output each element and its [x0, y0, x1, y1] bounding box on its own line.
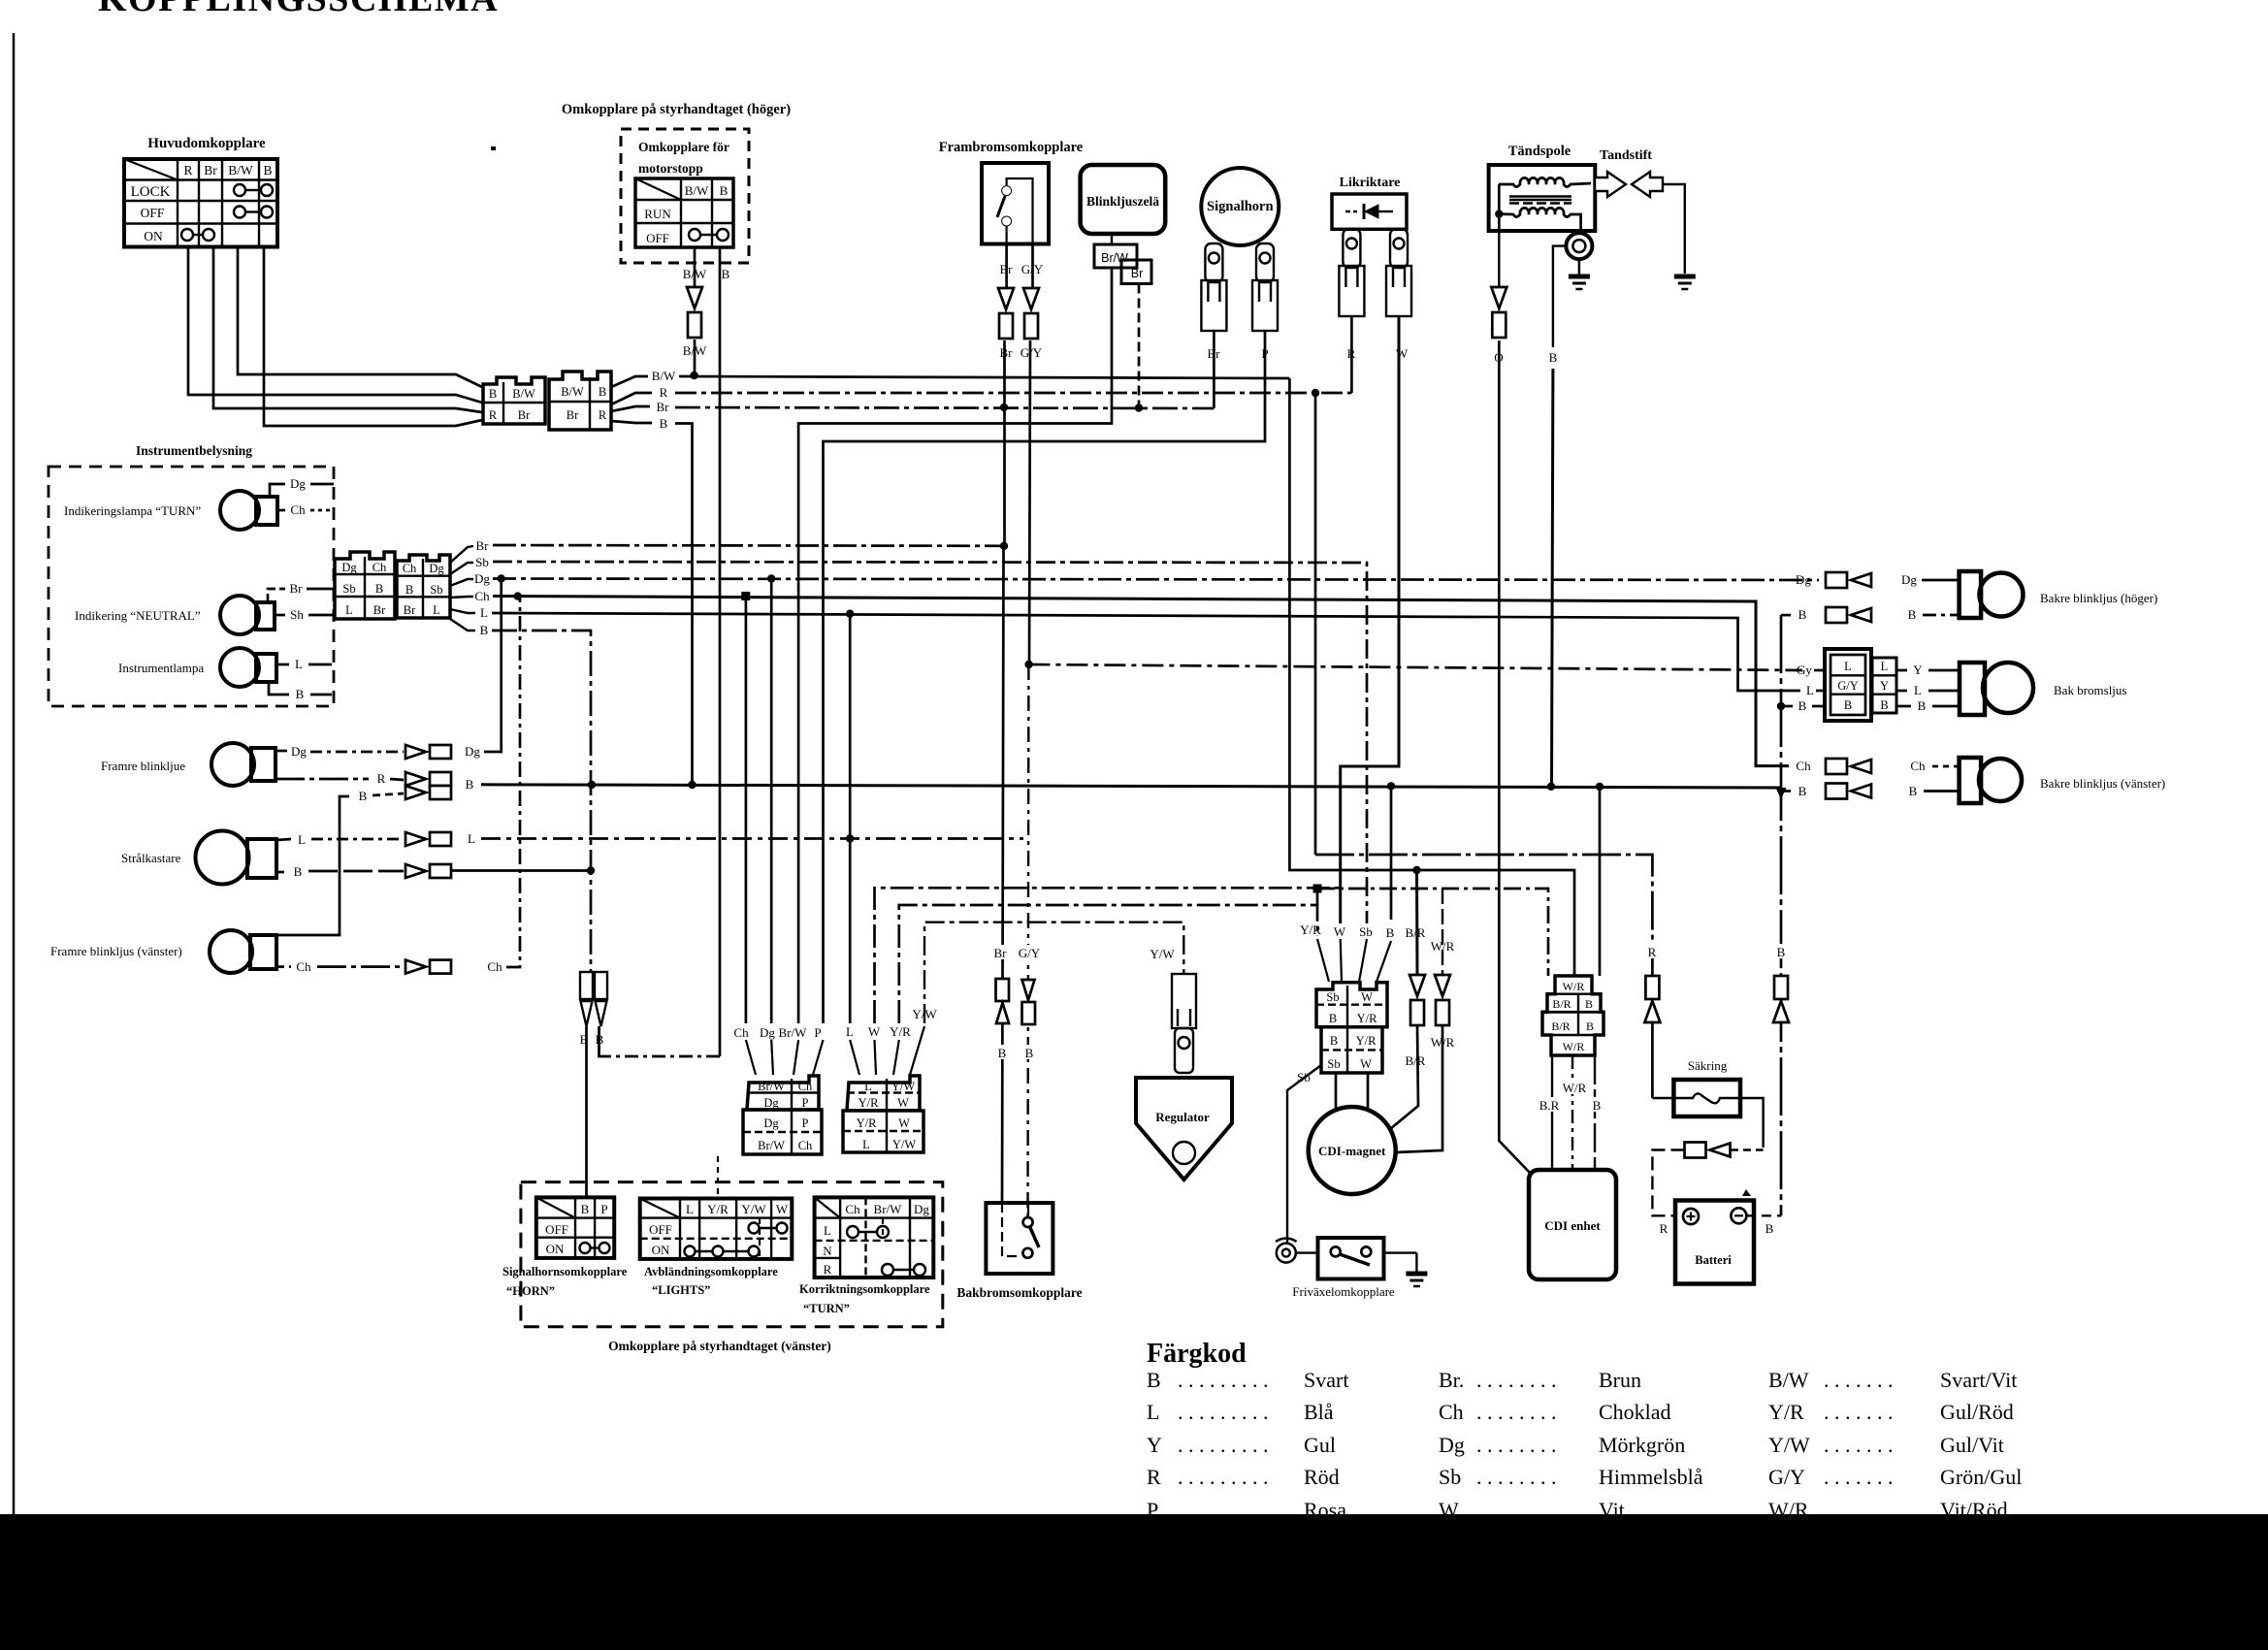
svg-text:Bakbromsomkopplare: Bakbromsomkopplare [956, 1285, 1082, 1300]
svg-text:CDI enhet: CDI enhet [1544, 1218, 1601, 1233]
svg-text:Y/R: Y/R [1356, 1034, 1377, 1048]
neutral switch contacts [1331, 1246, 1341, 1256]
svg-text:“HORN”: “HORN” [506, 1284, 555, 1298]
wire Br down to bus [1003, 340, 1006, 546]
wire Dg up to bus [484, 579, 502, 753]
svg-text:Korriktningsomkopplare: Korriktningsomkopplare [799, 1282, 930, 1296]
svg-text:Avbländningsomkopplare: Avbländningsomkopplare [644, 1265, 778, 1278]
pins right of connector [1896, 669, 1907, 672]
svg-text:. . . . . . .: . . . . . . . [1824, 1433, 1894, 1457]
svg-text:Gul/Vit: Gul/Vit [1940, 1433, 2004, 1457]
svg-text:“LIGHTS”: “LIGHTS” [652, 1283, 710, 1297]
svg-text:R: R [183, 163, 192, 178]
svg-text:Dg: Dg [290, 476, 306, 491]
wire L pin [849, 614, 852, 1023]
labels B B above rear brake switch [995, 1045, 1009, 1059]
svg-text:B: B [1798, 784, 1807, 798]
wire B bottom jog to connector [599, 1028, 721, 1056]
handlebar right connector lower table [843, 1111, 923, 1152]
svg-text:Regulator: Regulator [1155, 1110, 1210, 1124]
svg-text:Batteri: Batteri [1695, 1253, 1732, 1267]
svg-text:. . . . . . .: . . . . . . . [1824, 1368, 1894, 1392]
svg-text:P: P [802, 1116, 809, 1130]
svg-text:L: L [686, 1202, 694, 1216]
ground under ring [1578, 259, 1581, 275]
svg-text:Br: Br [518, 408, 531, 422]
svg-text:Br/W: Br/W [1101, 251, 1128, 265]
wire BrW pin fan [794, 1040, 798, 1075]
svg-text:Frambromsomkopplare: Frambromsomkopplare [939, 140, 1084, 155]
svg-text:Tändspole: Tändspole [1508, 144, 1571, 159]
wire Sb to neutral switch [1287, 1065, 1321, 1243]
svg-text:Sb: Sb [475, 555, 489, 569]
black bottom bar [0, 1514, 2268, 1650]
svg-text:RUN: RUN [644, 207, 671, 221]
svg-text:. . . . . . . . .: . . . . . . . . . [1178, 1433, 1269, 1457]
svg-text:L: L [480, 605, 488, 620]
wire Br continues to rear brake switch [1002, 546, 1004, 1203]
connector arrow B headlight [405, 864, 451, 878]
svg-text:B: B [1909, 784, 1918, 798]
bus R line [675, 392, 1351, 395]
connector two squares [580, 972, 607, 1026]
wire spark plug to ground [1663, 184, 1685, 274]
svg-text:Br: Br [657, 400, 670, 414]
wire B/W from stop switch [694, 247, 697, 287]
svg-text:Y/R: Y/R [1357, 1012, 1378, 1025]
CDI unit box [1529, 1170, 1616, 1279]
svg-text:Huvudomkopplare: Huvudomkopplare [147, 136, 266, 151]
svg-text:Omkopplare på styrhandtaget (h: Omkopplare på styrhandtaget (höger) [562, 102, 791, 117]
svg-text:Brun: Brun [1599, 1368, 1641, 1392]
svg-text:B: B [405, 583, 413, 597]
wire G/Y continues to rear brake switch [1026, 664, 1029, 1217]
battery arrow mark [1742, 1189, 1751, 1196]
svg-text:Br: Br [1000, 345, 1014, 360]
svg-text:Framre blinkljus (vänster): Framre blinkljus (vänster) [50, 944, 182, 958]
svg-text:Br: Br [373, 603, 386, 617]
svg-text:Dg: Dg [341, 561, 357, 574]
svg-text:. . . . . . . .: . . . . . . . . [1476, 1465, 1557, 1489]
battery box [1675, 1201, 1754, 1284]
wire B/W from main switch [238, 247, 482, 388]
svg-text:B/R: B/R [1406, 925, 1426, 940]
junction B instrument riser [588, 781, 596, 789]
turn switch contacts [847, 1226, 925, 1276]
svg-text:Dg: Dg [1439, 1433, 1465, 1457]
stray dot [491, 146, 496, 150]
svg-text:W/R: W/R [1563, 980, 1585, 993]
junction B CDI magnet [1387, 782, 1395, 790]
wire Br front brake [1005, 244, 1008, 289]
svg-text:B: B [294, 864, 303, 879]
svg-text:Ch: Ch [1910, 759, 1926, 773]
bus B instrument fanout [450, 619, 475, 631]
svg-text:Tandstift: Tandstift [1600, 148, 1652, 163]
wire horn P to handlebar [824, 331, 1266, 1023]
svg-text:B: B [1330, 1034, 1338, 1048]
wire B instrument bulb [269, 682, 289, 695]
wire Y/W pin [924, 922, 1183, 1023]
svg-text:L: L [433, 603, 440, 617]
svg-text:“TURN”: “TURN” [803, 1302, 850, 1315]
connector arrow Ch [405, 960, 451, 974]
front brake switch box [982, 163, 1049, 244]
battery minus terminal [1731, 1208, 1746, 1223]
CDI magnet circle [1309, 1107, 1396, 1194]
svg-text:Br: Br [1131, 267, 1144, 280]
bulb instrument [220, 648, 276, 687]
bus Br fanout label [611, 406, 650, 411]
svg-text:L: L [846, 1024, 854, 1039]
bus Dg instrument fanout [450, 579, 473, 586]
svg-text:Y/R: Y/R [890, 1024, 911, 1039]
bus B corner down [675, 424, 693, 785]
svg-text:W: W [897, 1096, 909, 1110]
connector arrow Dg [405, 745, 451, 759]
svg-text:L: L [824, 1223, 831, 1238]
junction R bus [1312, 389, 1319, 397]
CDI unit connector [1542, 976, 1604, 1055]
junction B/R on H1 [1412, 866, 1420, 874]
regulator connector [1172, 974, 1196, 1073]
HT ring [1566, 233, 1592, 259]
wire W/R arrow branch [1426, 938, 1459, 953]
wires connector to CDI magnet [1335, 1073, 1338, 1109]
svg-text:Svart/Vit: Svart/Vit [1940, 1368, 2017, 1392]
svg-text:B: B [375, 582, 383, 596]
svg-text:Instrumentbelysning: Instrumentbelysning [136, 443, 252, 458]
wire Ch up to bus [506, 597, 520, 967]
labels R W [1345, 345, 1358, 360]
svg-text:Br/W: Br/W [779, 1025, 808, 1040]
engine stop switch table [635, 178, 733, 247]
coil core [1509, 197, 1571, 204]
svg-text:W: W [1360, 1057, 1372, 1071]
wire Br/W relay down and left [798, 268, 1112, 1023]
svg-text:Omkopplare på styrhandtaget (v: Omkopplare på styrhandtaget (vänster) [608, 1339, 831, 1353]
junction B main-switch riser [688, 781, 696, 789]
svg-text:P: P [600, 1202, 607, 1216]
svg-text:Dg: Dg [760, 1025, 775, 1040]
regulator body [1136, 1078, 1232, 1180]
handlebar left connector lower table [743, 1110, 822, 1154]
bus Br line [675, 407, 1214, 408]
bulb rear right blinker [1960, 571, 2024, 618]
wire B rear vertical [1780, 615, 1783, 1215]
svg-text:. . . . . . . . .: . . . . . . . . . [1178, 1465, 1269, 1489]
wire neutral box to ground [1383, 1251, 1416, 1253]
wire B from main switch [264, 247, 482, 427]
main connector pair (B B/W / R Br) [483, 372, 611, 430]
svg-text:G/Y: G/Y [1019, 946, 1041, 960]
svg-text:B: B [480, 623, 489, 637]
svg-text:Y: Y [1880, 679, 1889, 693]
svg-text:Sb: Sb [342, 582, 355, 596]
svg-text:B/R: B/R [1406, 1053, 1426, 1068]
svg-text:Himmelsblå: Himmelsblå [1599, 1465, 1703, 1489]
svg-text:LOCK: LOCK [131, 184, 171, 200]
wire L headlight [276, 839, 291, 840]
junction G/Y bus [1024, 661, 1032, 668]
svg-text:B/R: B/R [1551, 1019, 1570, 1033]
svg-text:Gy: Gy [1797, 663, 1812, 677]
svg-text:OFF: OFF [545, 1222, 568, 1237]
neutral switch contact ring [1277, 1244, 1296, 1263]
wire B to CDI magnet connector [1390, 786, 1393, 920]
svg-text:L: L [1806, 683, 1814, 697]
labels Br G/Y lower [989, 945, 1011, 959]
wire relay stubs [1111, 234, 1113, 244]
svg-text:B/W: B/W [1768, 1368, 1809, 1392]
svg-text:B/W: B/W [652, 369, 676, 383]
label B/W mid [679, 342, 710, 357]
svg-text:R: R [489, 408, 498, 422]
svg-text:B: B [1025, 1046, 1034, 1060]
svg-text:B: B [1908, 607, 1917, 622]
wire B from coil ring [1553, 246, 1567, 347]
labels B/W B under stop switch [679, 266, 710, 280]
svg-text:Y: Y [1147, 1433, 1162, 1457]
wire O long vertical [1499, 340, 1531, 1174]
svg-text:B: B [489, 387, 497, 401]
svg-text:R: R [660, 385, 668, 400]
svg-text:P: P [814, 1025, 821, 1040]
label B above battery connector [1774, 944, 1788, 958]
svg-text:Sb: Sb [1359, 924, 1373, 939]
svg-text:L: L [295, 657, 303, 671]
svg-text:Bakre blinkljus (höger): Bakre blinkljus (höger) [2040, 591, 2157, 605]
junction L bus [846, 610, 854, 618]
junction L headlight [846, 834, 854, 842]
wire Br relay down to bus [1138, 284, 1141, 408]
svg-text:Y/R: Y/R [707, 1202, 729, 1216]
svg-text:B/W: B/W [512, 387, 535, 401]
svg-text:B: B [1549, 350, 1558, 365]
wire B headlight [276, 871, 287, 874]
svg-text:L: L [864, 1080, 872, 1093]
wire B to CDI unit [1599, 787, 1602, 976]
svg-text:L: L [298, 832, 306, 847]
svg-text:B: B [1777, 945, 1786, 959]
svg-text:Grön/Gul: Grön/Gul [1940, 1465, 2022, 1489]
page left margin line [13, 33, 16, 1514]
svg-text:B: B [1147, 1368, 1161, 1392]
diode symbol [1345, 204, 1393, 219]
wire Dg TURN bulb [270, 484, 285, 497]
svg-text:ON: ON [144, 229, 163, 243]
wire B from stop switch long vertical [719, 247, 722, 1056]
bypass connector [1685, 1143, 1731, 1158]
svg-text:B: B [722, 267, 730, 281]
svg-text:B: B [660, 416, 668, 431]
svg-text:L: L [345, 603, 353, 617]
svg-text:W: W [1361, 990, 1373, 1004]
wire P pin fan [813, 1040, 824, 1075]
neutral switch box [1318, 1238, 1384, 1279]
svg-text:Ch: Ch [733, 1025, 749, 1040]
svg-text:B: B [720, 183, 729, 198]
svg-text:Indikeringslampa “TURN”: Indikeringslampa “TURN” [64, 503, 201, 518]
svg-text:Choklad: Choklad [1599, 1400, 1671, 1424]
svg-text:Mörkgrön: Mörkgrön [1599, 1433, 1685, 1457]
rectifier box [1332, 194, 1407, 229]
wire fuse to battery plus [1740, 1098, 1764, 1148]
svg-text:Y/W: Y/W [891, 1080, 916, 1093]
spark gap arrow out [1595, 172, 1626, 197]
svg-text:Dg: Dg [914, 1202, 929, 1216]
CDI magnet connector upper table [1316, 983, 1387, 1027]
wire B to horn switch [585, 1026, 588, 1197]
rear right blinker B wire [1781, 614, 1791, 617]
svg-text:Y/R: Y/R [857, 1116, 878, 1130]
svg-text:Dg: Dg [465, 744, 480, 759]
labels Br G/Y under front brake [995, 261, 1017, 275]
svg-text:Y/W: Y/W [1768, 1433, 1810, 1457]
svg-text:B: B [1386, 925, 1395, 940]
svg-text:Br.: Br. [1439, 1368, 1464, 1392]
wire W terminal long [1341, 316, 1399, 936]
svg-text:. . . . . . .: . . . . . . . [1824, 1400, 1894, 1424]
bulb front left blinker [210, 930, 276, 973]
handlebar right connector upper table [847, 1076, 920, 1111]
svg-text:ON: ON [652, 1243, 670, 1257]
svg-text:Blinkljuszelä: Blinkljuszelä [1086, 194, 1159, 209]
wire L dashline right [481, 837, 1023, 840]
svg-text:L: L [1147, 1400, 1159, 1424]
wire Ch pin [745, 597, 748, 1023]
svg-text:Sh: Sh [290, 607, 304, 622]
primary winding [1499, 178, 1591, 186]
svg-text:ON: ON [546, 1242, 565, 1256]
wire G/Y down to bus [1029, 340, 1030, 664]
svg-text:N: N [823, 1244, 832, 1258]
wire O from coil [1498, 231, 1500, 287]
wire B front right blinker [275, 778, 369, 781]
svg-text:Indikering “NEUTRAL”: Indikering “NEUTRAL” [75, 608, 201, 623]
engine stop switch contacts [689, 229, 729, 241]
ignition coil box [1489, 165, 1596, 231]
svg-text:Br: Br [290, 581, 304, 596]
junction Ch handlebar [741, 592, 750, 600]
svg-text:R: R [1648, 945, 1657, 959]
svg-text:Y/W: Y/W [1150, 947, 1175, 961]
svg-text:Färgkod: Färgkod [1147, 1339, 1247, 1369]
svg-text:Ch: Ch [296, 959, 311, 974]
svg-text:. . . . . . .: . . . . . . . [1824, 1465, 1894, 1489]
svg-text:Säkring: Säkring [1688, 1058, 1728, 1073]
rear brake switch internals [1002, 1203, 1019, 1256]
wires CDI connector to unit [1551, 1055, 1553, 1170]
rear brake light connector [1825, 649, 1896, 721]
svg-text:Instrumentlampa: Instrumentlampa [118, 661, 204, 675]
horn switch table [536, 1197, 614, 1258]
svg-text:Y/R: Y/R [1768, 1400, 1804, 1424]
bus R fanout label [611, 393, 652, 404]
junction B headlight [587, 866, 595, 874]
svg-text:Dg: Dg [429, 562, 444, 575]
svg-text:OFF: OFF [646, 231, 669, 245]
svg-text:Br/W: Br/W [874, 1202, 903, 1216]
instrument connector right block [397, 555, 450, 618]
wire L instrument bulb [276, 663, 289, 666]
svg-text:W: W [1334, 924, 1346, 939]
svg-text:. . . . . . . .: . . . . . . . . [1476, 1400, 1557, 1424]
svg-text:Y/R: Y/R [1300, 922, 1321, 937]
svg-text:Bak bromsljus: Bak bromsljus [2054, 683, 2126, 697]
square junction H2 [1313, 885, 1322, 893]
fuse element [1652, 1093, 1740, 1103]
svg-text:Br: Br [994, 946, 1008, 960]
svg-text:L: L [468, 831, 475, 846]
svg-text:OFF: OFF [141, 206, 165, 220]
wire Dg front right blinker [275, 750, 287, 753]
svg-text:L: L [1844, 660, 1852, 673]
svg-text:Ch: Ch [373, 561, 387, 574]
svg-text:Ch: Ch [798, 1080, 813, 1093]
wire R branch to fuse [1314, 393, 1317, 855]
CDI magnet fan wires [1317, 939, 1391, 982]
lights switch table [640, 1199, 793, 1259]
bus Ch instrument fanout [450, 597, 473, 598]
svg-text:L: L [1914, 683, 1922, 697]
wire Dg pin [770, 579, 773, 1024]
svg-text:B/W: B/W [561, 385, 584, 399]
horn terminal Br [1201, 243, 1226, 331]
svg-text:Y: Y [1913, 663, 1923, 677]
svg-text:Sb: Sb [430, 583, 442, 597]
dashed stubs to switch tables [717, 1156, 719, 1198]
svg-text:B: B [1329, 1012, 1337, 1025]
wire B/W to bus [694, 340, 697, 373]
svg-text:B: B [998, 1046, 1007, 1060]
labels B B under squares [577, 1031, 591, 1046]
svg-text:Ch: Ch [1439, 1400, 1464, 1424]
svg-text:Ch: Ch [474, 589, 490, 603]
svg-text:Dg: Dg [1901, 572, 1917, 587]
svg-text:B: B [1798, 698, 1807, 713]
wire W pin [875, 888, 1341, 1023]
svg-text:R: R [1660, 1221, 1669, 1236]
svg-text:Signalhornsomkopplare: Signalhornsomkopplare [502, 1265, 628, 1278]
svg-text:KOPPLINGSSCHEMA: KOPPLINGSSCHEMA [98, 0, 499, 19]
svg-text:W/R: W/R [1563, 1040, 1585, 1053]
svg-text:OFF: OFF [649, 1222, 672, 1237]
svg-text:. . . . . . . .: . . . . . . . . [1476, 1368, 1557, 1392]
svg-text:B: B [359, 789, 368, 803]
svg-text:Röd: Röd [1304, 1465, 1340, 1489]
bus B/W line [679, 376, 1289, 378]
bus B/W fanout label [611, 376, 648, 387]
svg-text:CDI-magnet: CDI-magnet [1318, 1144, 1386, 1158]
connector on B battery wire [1773, 976, 1789, 1022]
horn Signalhorn [1201, 168, 1279, 245]
svg-text:B: B [296, 687, 305, 701]
ground spark plug [1674, 276, 1696, 289]
svg-text:R: R [1147, 1465, 1161, 1489]
svg-text:B: B [1593, 1098, 1602, 1113]
svg-text:Likriktare: Likriktare [1340, 176, 1401, 190]
svg-text:B: B [466, 777, 474, 792]
svg-text:Y/W: Y/W [741, 1202, 766, 1216]
bus Br instrument fanout [450, 546, 473, 563]
svg-text:P: P [802, 1096, 809, 1110]
bus L instrument fanout [450, 609, 475, 613]
horn terminal P [1252, 243, 1278, 331]
horn switch contacts [580, 1243, 610, 1253]
svg-text:Gul: Gul [1304, 1433, 1336, 1457]
svg-text:B: B [1844, 698, 1852, 712]
